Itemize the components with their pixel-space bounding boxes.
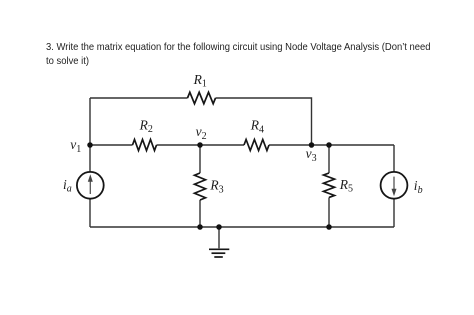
- svg-text:R5: R5: [339, 177, 353, 195]
- svg-text:ia: ia: [63, 177, 72, 195]
- svg-text:R3: R3: [209, 178, 223, 196]
- svg-text:v1: v1: [70, 137, 81, 155]
- svg-text:R4: R4: [250, 118, 264, 136]
- svg-text:v3: v3: [306, 146, 317, 164]
- svg-text:R1: R1: [193, 72, 207, 90]
- svg-text:R2: R2: [139, 117, 153, 135]
- svg-text:ib: ib: [414, 178, 423, 196]
- svg-text:v2: v2: [196, 124, 207, 142]
